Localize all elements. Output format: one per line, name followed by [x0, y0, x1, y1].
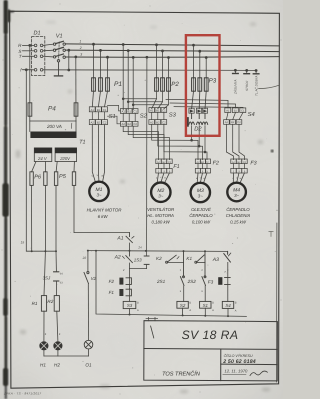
thermal contact F1 — [119, 289, 131, 302]
control bottom rail — [96, 251, 246, 317]
contact 3S1 — [54, 251, 59, 295]
M3 terminal marks — [196, 176, 205, 179]
coil pin ticks — [189, 301, 236, 312]
F1 pin labels — [157, 161, 172, 173]
terminal TLAC DOSKA — [253, 70, 259, 74]
D1 contacts — [34, 44, 43, 71]
resistor R1 — [41, 296, 46, 312]
M4 terminal marks — [232, 176, 241, 179]
switch V2 — [84, 272, 89, 284]
M1 caption — [87, 208, 123, 220]
title block outline — [144, 321, 278, 381]
scan blob top-left corner — [7, 9, 14, 22]
wire P6 to lamp rail — [32, 185, 57, 251]
fuse P2 (three) — [155, 78, 171, 91]
thermal relay F1 — [156, 159, 172, 173]
wire D1 to V1 — [43, 44, 256, 70]
highlight red box — [186, 35, 220, 136]
M1 terminal marks — [92, 174, 104, 177]
node 1 2 3 labels — [79, 40, 82, 57]
wire P2 drop 1 — [156, 44, 158, 78]
bus line L3 — [65, 56, 279, 59]
wire P2 to S2 loop 3 — [132, 91, 168, 106]
signature — [250, 371, 267, 376]
wire F2 to M3 — [197, 173, 207, 183]
fuse P4 (pair) — [28, 103, 78, 116]
wire P3 drop 3 — [205, 57, 207, 78]
pushbutton A2 — [122, 251, 132, 269]
wire bus to 1S3 — [146, 56, 148, 256]
wire D2 to bus taps — [191, 126, 206, 153]
contactor S3 contacts — [149, 108, 167, 125]
fuse P6 — [30, 172, 47, 186]
contact K2 — [166, 251, 184, 263]
wire R2 to H2 — [57, 311, 58, 341]
junction dots control rail — [87, 250, 206, 253]
wire tap L3 to P4 fuse b — [75, 56, 77, 121]
title block tick marks — [146, 317, 158, 320]
S4 contact pin labels — [225, 109, 245, 124]
wire P2 to S3 contacts — [152, 99, 169, 109]
coil S2 — [177, 301, 188, 315]
wire P3 drop 2 — [199, 50, 201, 78]
stain dot on right border — [271, 150, 274, 153]
contact 1S3 — [144, 256, 149, 269]
resistor R1 branch wire — [44, 251, 45, 295]
wire 220V branch to A1 — [74, 185, 130, 232]
contact K1 — [195, 251, 205, 263]
switch A3 — [224, 251, 231, 270]
wire P1 drop 3 — [107, 56, 109, 78]
lamp H2 — [54, 342, 62, 350]
coil S4 — [222, 301, 233, 315]
wire P2 drop 2 — [162, 50, 164, 78]
coil S1 — [200, 301, 211, 315]
disconnect D1 — [32, 37, 45, 76]
bus line L2 — [65, 50, 279, 52]
wire P2 to S2 loop 1 — [122, 91, 156, 100]
rectifier D2 contacts — [189, 91, 208, 113]
date underline — [223, 373, 246, 375]
wire R1 to H1 — [43, 311, 45, 341]
wire S3 to F2 jogs — [152, 124, 207, 159]
coil S3 — [123, 301, 136, 314]
wire A2 1S3 join — [130, 269, 147, 278]
junction dots bottom rail — [129, 314, 230, 318]
pushbutton A1 — [126, 233, 134, 251]
wire 200VA box top — [30, 120, 76, 122]
wire V2 branch — [87, 251, 90, 341]
contact 2S2 — [202, 262, 206, 301]
S3 contact pin labels — [150, 108, 166, 124]
fuse P5 — [54, 172, 75, 186]
ground of V1 — [54, 62, 62, 76]
bus line L1 — [65, 44, 279, 46]
terminal ZASUVKA — [233, 69, 239, 73]
z marks K branches — [180, 268, 227, 293]
wire R input — [23, 45, 34, 69]
M3 caption — [189, 207, 213, 225]
fold mark right margin — [269, 232, 273, 237]
motor M3 — [191, 183, 210, 202]
wire P3 drop 1 — [193, 44, 195, 78]
paper stains — [16, 21, 270, 393]
wire curve from right border — [259, 85, 280, 88]
resistor R2 — [54, 296, 59, 312]
wire along right border — [276, 223, 278, 382]
transformer T1 primary — [30, 132, 76, 139]
wires secondary taps to fuses — [32, 162, 75, 172]
wire P1 to S1 contacts — [92, 91, 107, 107]
transformer T1 secondary 24V tab — [34, 148, 52, 162]
control top rail — [88, 250, 228, 253]
wire S2 to F1 jogs — [123, 127, 169, 160]
wire S1 aux loops — [108, 105, 121, 123]
wire F1 to M2 — [157, 173, 169, 183]
contactor S2 contacts — [120, 109, 138, 127]
wire cross to S4 row 1 — [166, 99, 243, 108]
contact 2S1 — [180, 262, 184, 301]
thermal relay F3 — [231, 159, 247, 173]
wire left control rail from f — [25, 69, 56, 251]
fuse P1 (three) — [92, 78, 110, 91]
contactor S4 contacts — [224, 108, 246, 124]
fuse P3 (three) — [192, 78, 209, 91]
wire P1 drop 2 — [100, 49, 102, 77]
motor M2 — [151, 183, 170, 202]
contactor S1 contacts — [89, 107, 107, 125]
lamp O1 — [84, 340, 93, 349]
junction dots on lamp rail — [31, 250, 57, 252]
motor M1 — [89, 182, 108, 201]
3S1 pin marks — [60, 272, 63, 284]
lamp bottom rail — [44, 349, 89, 356]
S2 contact pin labels — [121, 109, 137, 126]
wire P1 drop 1 — [93, 43, 95, 78]
wire S2 drop 3 — [132, 56, 134, 109]
D2 coil squiggles — [188, 113, 208, 125]
F2 pin labels — [197, 161, 210, 173]
M4 caption — [226, 207, 251, 225]
F3 pin labels — [232, 161, 247, 173]
wire S2 drop 2 — [127, 50, 129, 110]
motor M4 — [227, 183, 246, 202]
handwritten slash mark — [151, 326, 154, 338]
wire S2 drop 1 — [122, 44, 124, 110]
node R — [18, 43, 23, 72]
coil S3 pin ticks — [137, 301, 139, 312]
S1 contact pin labels — [90, 108, 106, 125]
thermal relay F2 — [195, 159, 210, 173]
M2 terminal marks — [156, 176, 166, 179]
wire tap to P4 fuse a — [29, 44, 31, 121]
border frame — [10, 11, 280, 388]
wire F3 to M4 — [233, 173, 244, 183]
M2 caption — [147, 207, 174, 225]
tick next to 200VA — [70, 123, 72, 128]
terminal STROJ — [244, 69, 250, 73]
wire S4 to F3 — [226, 124, 244, 159]
thermal contact F3 — [218, 270, 230, 301]
lamp H1 — [40, 342, 48, 350]
wire tap L2 to f line — [68, 49, 70, 71]
z marks above lamps — [45, 332, 61, 336]
scan shadow left edge — [2, 0, 8, 399]
thermal contact F2 — [119, 277, 131, 288]
wire P2 to S2 loop 2 — [127, 91, 162, 103]
transformer T1 secondary 220V tab — [55, 148, 77, 162]
wire P2 drop 3 — [168, 57, 170, 78]
wire box sides — [30, 121, 76, 132]
wire S1 to M1 — [92, 125, 104, 182]
